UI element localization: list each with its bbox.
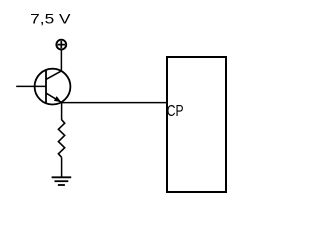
supply terminal + bbox=[56, 40, 66, 50]
transistor Q1 bbox=[35, 69, 71, 105]
base wire bbox=[16, 85, 46, 87]
wire emitter to box bbox=[62, 102, 167, 104]
resistor R1 bbox=[58, 120, 64, 158]
svg-text:7,5 V: 7,5 V bbox=[30, 10, 71, 26]
wire resistor to ground bbox=[61, 157, 63, 177]
wire supply to collector bbox=[60, 50, 62, 72]
block CP bbox=[167, 57, 226, 192]
svg-text:CP: CP bbox=[167, 103, 184, 120]
wire emitter down bbox=[61, 103, 63, 120]
ground bbox=[52, 177, 72, 185]
